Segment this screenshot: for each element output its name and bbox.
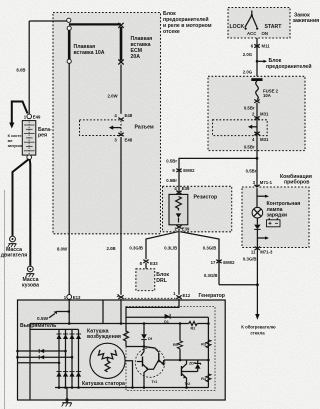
fuse 2 symbol [256,81,259,100]
wire split to E33 [146,232,178,259]
transistor Tr1 darlington [135,347,165,388]
field coil [124,324,129,347]
label fuse block arrow [266,58,312,70]
body ground [26,266,35,277]
connector 9 EM02 [172,168,195,173]
stator right link [125,361,132,388]
label FUSE 2 10A [263,88,279,98]
stator phase stub 2 [16,355,73,359]
connector 8 E33 [140,260,159,266]
transistor Tr2 [182,360,191,388]
ring terminal top1 [67,18,71,22]
resistor box [169,194,188,224]
wire EM02 to main junction [219,284,258,286]
battery icon [267,218,281,227]
ignition switch contacts [245,11,259,30]
ring terminal bottom of link [67,59,71,63]
resistor element [176,197,182,211]
label field coil [87,328,121,340]
connector 4 E39 [174,186,190,194]
wire E12 pin1 feed [126,299,179,324]
connector 1 E13 [64,295,81,300]
connector 3 E48 [114,133,132,143]
battery negative ring [27,155,32,160]
label instrument cluster [280,173,312,186]
generator box [18,300,226,400]
label 0.5W with arrow [37,311,57,321]
regulator top wire [126,316,208,318]
scan fold line left edge [4,190,6,409]
bottom bus [55,387,208,389]
wire E48 down to generator [120,137,122,295]
bus junction dots [58,386,188,389]
M31 junction dashed box [213,120,268,136]
diode D1 [164,314,170,324]
arrow out of E48 [109,126,121,130]
junction dots on W1 [68,322,181,325]
stator phase stub 1 [16,349,67,353]
label battery [38,127,52,139]
label engine bay box [163,11,212,35]
rectifier top bus [30,328,79,330]
arrow right upper [257,195,269,198]
wire E12 pin2 into generator [120,299,122,324]
arrow right lower [257,236,269,239]
ignition switch position labels [230,24,283,36]
wire split to EM02-17 [181,232,220,285]
fusible link 10A [68,30,71,59]
label charge lamp [267,201,301,218]
label engine ground [1,247,27,259]
resistor R5 [173,324,183,361]
junction and arrow to fuse box [256,60,267,63]
wire battery to top bus [29,20,66,22]
wire below fuse [256,103,258,207]
junction R column mid [207,359,210,362]
label to glass heater [241,324,276,335]
junction with EM02 wire [256,283,259,286]
resistor R2 [189,322,209,331]
fuse box terminal bar [251,78,262,81]
resistor internal diode [176,213,182,222]
rectifier bottom diodes [56,372,81,377]
connector E12 pins 2 and 1 [117,291,191,299]
engine ground [8,236,17,247]
label DRL block [156,272,169,284]
rectifier feed stub [57,310,71,313]
wire E48 branch [120,65,122,114]
label to starting system [8,134,24,148]
arrow out of M31 box [248,125,257,129]
label fusible link 10A [74,44,105,56]
battery [22,121,36,156]
rectifier column 2 [65,329,67,387]
connector 17 EM02 [211,260,236,266]
top bus thick [69,23,121,25]
connector 2 M31 [252,111,269,119]
resistor R3 [201,340,211,348]
engine bay fuse/relay box [53,13,161,234]
wire diode down [256,229,258,314]
chassis ground [62,403,72,407]
connector box E48 [80,120,122,136]
regulator right column [207,317,209,387]
junction Df Tr1 [143,345,146,348]
arrow to glass heater [255,314,259,320]
regulator mid wire [164,359,208,361]
connector 1 E39 [174,225,190,231]
wire E13 into generator [68,299,70,323]
ignition feed wire M11 [256,38,258,81]
wire battery vertical [28,21,30,114]
label ignition switch [293,13,320,25]
ground drop [65,388,68,403]
regulator dashed box [126,307,215,391]
diode Df [141,324,153,347]
interior fuse box [208,76,305,150]
wire field to Tr1 [126,346,144,348]
connector 11 M71-3 [251,247,273,255]
instrument cluster box [242,187,309,248]
label body ground [22,277,39,289]
main internal bus W1 [30,323,189,325]
wire branch to resistor [179,158,257,194]
rectifier top diodes [56,334,81,339]
wire resistor to generator L [178,229,180,295]
connector 4 E48 [114,113,132,121]
wire into DRL box [145,263,147,269]
rectifier column 3 [71,329,73,387]
charge warning lamp [252,207,263,218]
connector below fuse [254,100,259,103]
DRL block box [136,269,155,291]
connector 4 M31 [252,132,269,142]
wire inside cluster [256,188,258,207]
rectifier column 1 [58,329,60,387]
cluster diode [254,225,260,230]
label fusible link ECM 20A [131,36,153,60]
junction R5 bottom [179,359,182,362]
wire to engine ground [13,159,29,236]
ring terminal top2 [67,26,71,30]
wire lamp to diode [256,218,258,225]
stator coil [90,343,125,378]
wire to body ground [29,159,32,266]
connector 3 M71-1 [253,180,273,188]
wire main E13 feed [68,63,70,294]
brush stub [102,300,104,324]
connector 1 E49 battery [24,114,41,119]
ignition switch box [228,8,290,39]
resistor R4 [201,374,211,382]
rectifier column 4 [78,329,80,387]
junction R column top [207,322,210,325]
arrow to starting system [9,102,27,129]
stator phase stub 3 [18,362,61,365]
rectifier left rail [29,324,31,400]
connector 6 M11 [251,44,270,49]
fusible link ECM 20A [118,23,123,65]
junction to resistor branch [256,157,259,160]
central connector dashed box [163,186,232,232]
zener ZD [182,360,201,372]
